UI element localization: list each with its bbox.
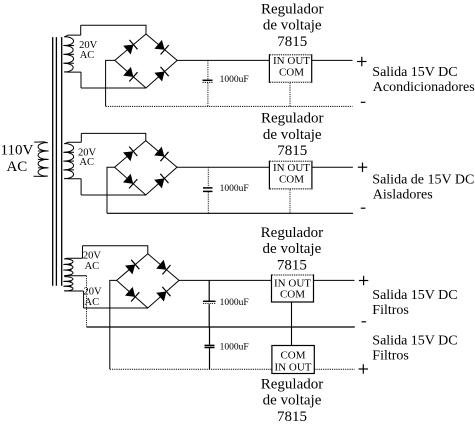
diode BR2 D3 [123, 174, 133, 184]
diode BR1 D1 [123, 45, 133, 55]
svg-text:COM: COM [280, 349, 305, 361]
bridge rectifier BR2 [115, 141, 177, 195]
voltage regulator U1 [269, 55, 311, 83]
wire U1 COM stub (dotted) [289, 83, 291, 107]
svg-text:1000uF: 1000uF [220, 184, 249, 194]
wire BR2 left corner to negative rail [107, 167, 115, 213]
diode BR3 D1 [125, 265, 135, 275]
wire positive rail S1 right [312, 59, 353, 61]
diode BR1 D2 [154, 40, 164, 50]
svg-text:de voltaje: de voltaje [263, 127, 322, 143]
wire BR1 left corner to negative rail [106, 60, 115, 106]
wire U4 COM stub [291, 327, 293, 346]
wire AC bottom S1 [81, 87, 146, 89]
minus terminal S1 [361, 101, 366, 103]
svg-text:AC: AC [80, 50, 95, 61]
diode BR3 D2 [156, 260, 166, 270]
minus terminal S2 [361, 207, 366, 209]
wire bottom rail S3 right (dotted) [314, 368, 354, 370]
svg-text:AC: AC [6, 159, 27, 175]
secondary winding W1 [63, 35, 81, 72]
wire W1 bottom lead down [80, 72, 82, 88]
diode BR2 D2 [154, 147, 164, 157]
wire top rail S1 [81, 25, 146, 34]
voltage regulator U3 [272, 275, 314, 302]
svg-text:COM: COM [279, 66, 304, 78]
svg-text:Regulador: Regulador [261, 225, 323, 241]
svg-text:de voltaje: de voltaje [263, 18, 322, 34]
wire top rail S3 [83, 246, 148, 254]
plus terminal S3b [359, 364, 368, 373]
wire W3a top lead to top rail [82, 246, 84, 258]
diode BR3 D4 [156, 292, 166, 302]
svg-text:de voltaje: de voltaje [263, 241, 322, 257]
svg-text:Salida 15V DC: Salida 15V DC [372, 65, 457, 80]
wire centre tap lead [64, 275, 86, 277]
wire W2 top lead to top rail [80, 133, 82, 142]
svg-text:Filtros: Filtros [372, 349, 409, 364]
svg-text:1000uF: 1000uF [220, 298, 249, 308]
plus terminal S3a [359, 276, 368, 285]
svg-text:COM: COM [280, 289, 305, 301]
transformer core [53, 37, 62, 286]
diode BR3 D3 [125, 287, 135, 297]
plus terminal S1 [357, 57, 366, 66]
secondary winding W3a [63, 258, 82, 275]
svg-text:Salida de 15V DC: Salida de 15V DC [372, 173, 474, 188]
wire positive rail S1 left [177, 59, 269, 61]
svg-text:Salida 15V DC: Salida 15V DC [372, 333, 457, 348]
svg-text:1000uF: 1000uF [220, 342, 249, 352]
bridge rectifier BR1 [115, 34, 177, 88]
wire AC bottom S2 [81, 194, 146, 196]
wire positive rail S2 left [177, 166, 269, 168]
wire positive rail S2 right [312, 166, 353, 168]
capacitor C3 [208, 280, 210, 300]
voltage regulator U4 [272, 346, 314, 374]
wire negative rail S1 (dotted) [106, 105, 353, 107]
diode BR1 D3 [123, 67, 133, 77]
secondary winding W3b [63, 277, 83, 291]
svg-text:Filtros: Filtros [372, 303, 409, 318]
wire negative rail S2 [107, 212, 353, 214]
diode BR2 D1 [123, 151, 133, 161]
wire centre tap to mid rail (dotted) [86, 276, 88, 327]
plus terminal S2 [358, 163, 367, 172]
svg-text:Regulador: Regulador [261, 376, 323, 392]
svg-text:Aisladores: Aisladores [373, 188, 433, 203]
svg-text:7815: 7815 [277, 34, 307, 50]
wire W2 bottom lead down [80, 179, 82, 195]
svg-text:IN OUT: IN OUT [273, 55, 310, 67]
wire U2 COM stub (dotted) [289, 190, 291, 214]
svg-text:7815: 7815 [277, 409, 307, 425]
minus terminal S3 [362, 321, 367, 323]
svg-text:7815: 7815 [277, 257, 307, 273]
wire W3b bottom lead down [83, 291, 85, 308]
wire top rail S2 [81, 133, 146, 140]
wire BR3 left corner down [110, 280, 117, 369]
svg-text:IN OUT: IN OUT [273, 162, 310, 174]
bridge rectifier BR3 [117, 254, 179, 308]
wire mid rail S3 [87, 326, 355, 328]
capacitor C1 [207, 60, 209, 79]
secondary winding W2 [63, 142, 81, 178]
svg-text:IN OUT: IN OUT [275, 361, 312, 373]
svg-text:COM: COM [279, 174, 304, 186]
svg-text:110V: 110V [1, 143, 34, 159]
wire U3 COM stub [291, 302, 293, 327]
voltage regulator U2 [269, 161, 312, 189]
wire positive rail S3 left [179, 279, 272, 281]
diode BR2 D4 [154, 178, 164, 188]
transformer primary winding [34, 142, 49, 177]
svg-text:Acondicionadores: Acondicionadores [373, 80, 475, 95]
svg-text:AC: AC [85, 261, 100, 272]
svg-text:Regulador: Regulador [261, 1, 323, 17]
svg-text:Regulador: Regulador [261, 111, 323, 127]
svg-text:1000uF: 1000uF [220, 75, 249, 85]
wire W1 top lead to top rail [80, 25, 82, 35]
diode BR1 D4 [154, 72, 164, 82]
wire AC bottom S3 [84, 307, 148, 309]
svg-text:AC: AC [79, 157, 94, 168]
svg-text:de voltaje: de voltaje [263, 393, 322, 409]
capacitor C2 [207, 167, 209, 187]
wire positive rail S3 right [314, 279, 355, 281]
svg-text:20V: 20V [83, 250, 102, 261]
svg-text:7815: 7815 [277, 143, 307, 159]
wire bottom rail S3 left (dotted) [110, 368, 272, 370]
svg-text:Salida 15V DC: Salida 15V DC [372, 288, 457, 303]
capacitor C4 [209, 327, 211, 345]
